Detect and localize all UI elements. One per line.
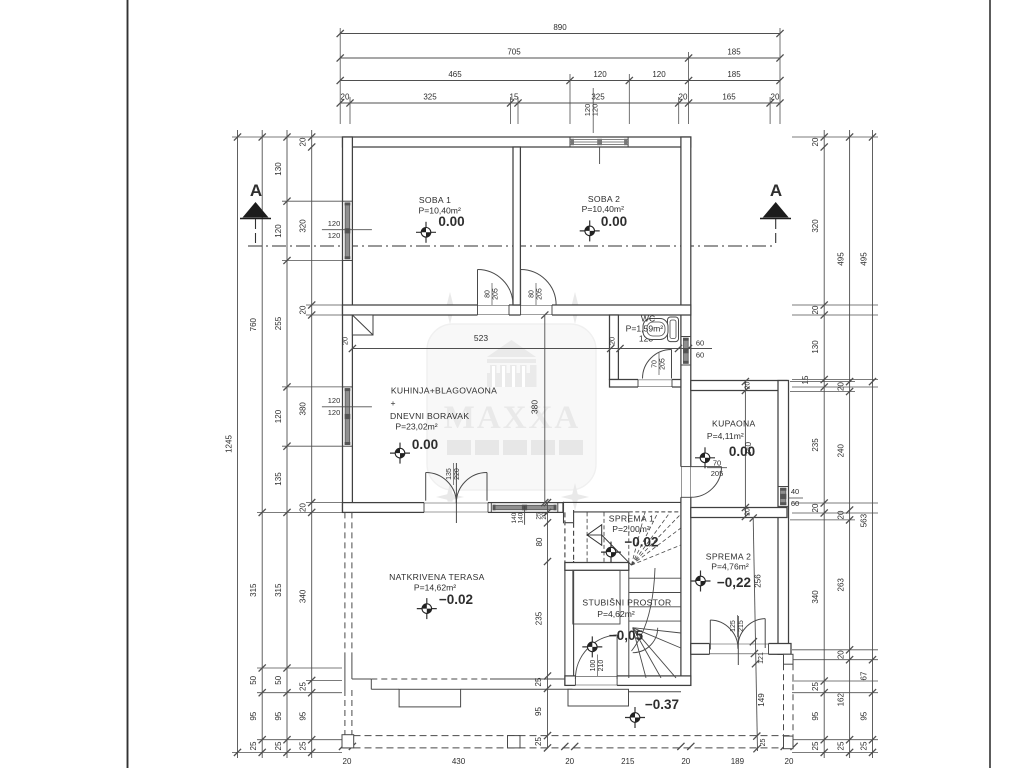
svg-text:0.00: 0.00	[729, 444, 755, 459]
svg-text:80: 80	[535, 537, 544, 546]
svg-text:465: 465	[448, 70, 462, 79]
svg-text:430: 430	[452, 757, 466, 766]
svg-text:140: 140	[518, 512, 525, 523]
door soba2 80/205	[521, 270, 557, 306]
elevation marker kupaona	[695, 447, 715, 468]
elevation marker kuhinja	[390, 443, 410, 464]
svg-text:120: 120	[328, 219, 341, 228]
elevation marker sprema2	[691, 571, 711, 592]
svg-text:SOBA 1: SOBA 1	[419, 195, 451, 205]
door kupaona 70/205	[691, 467, 722, 498]
left extension lines	[232, 137, 342, 752]
svg-text:185: 185	[727, 48, 741, 57]
svg-text:60: 60	[696, 339, 704, 348]
entrance step terrace	[399, 689, 461, 707]
svg-text:20: 20	[341, 337, 350, 345]
svg-text:120: 120	[328, 408, 341, 417]
window soba2 top 120/120	[570, 137, 628, 146]
dimension 380 kitchen height	[530, 311, 549, 506]
svg-text:60: 60	[791, 499, 799, 508]
svg-text:340: 340	[299, 589, 308, 603]
svg-text:20: 20	[679, 93, 688, 102]
svg-text:315: 315	[274, 583, 283, 597]
svg-text:25: 25	[811, 741, 820, 750]
svg-text:189: 189	[731, 757, 745, 766]
svg-text:215: 215	[621, 757, 635, 766]
svg-text:495: 495	[837, 252, 846, 266]
svg-text:0.00: 0.00	[601, 214, 627, 229]
svg-text:P=10,40m²: P=10,40m²	[582, 204, 624, 214]
section marker A left	[240, 181, 271, 219]
svg-text:185: 185	[727, 70, 741, 79]
page border right	[989, 0, 991, 768]
svg-text:P=4,76m²: P=4,76m²	[711, 562, 749, 572]
svg-text:256: 256	[754, 574, 763, 588]
svg-text:P=23,02m²: P=23,02m²	[395, 422, 437, 432]
top dimension chain row 890	[337, 23, 784, 37]
wall stair block left (dashed above, solid below)	[565, 510, 574, 685]
svg-text:20: 20	[811, 305, 820, 314]
svg-text:205: 205	[537, 288, 544, 300]
elevation marker soba2	[580, 220, 600, 241]
wall kupaona bottom	[691, 508, 787, 518]
label 120/120 window soba2 top	[583, 88, 600, 133]
svg-text:210: 210	[598, 660, 605, 672]
svg-text:240: 240	[837, 443, 846, 457]
room sprema1 labels	[609, 514, 659, 550]
right dimension chain 495/563/67/95/25	[860, 130, 877, 758]
svg-text:20: 20	[837, 510, 846, 519]
window soba1 left 120/120	[343, 201, 352, 260]
svg-text:−0.37: −0.37	[645, 697, 679, 712]
dimension terrace side 25/20/80/235/25/95/25	[534, 499, 551, 752]
svg-text:95: 95	[274, 711, 283, 720]
window kupaona right 40/60	[778, 487, 788, 507]
svg-text:95: 95	[299, 711, 308, 720]
window kitchen bottom 140/140	[491, 503, 558, 525]
svg-text:0.00: 0.00	[412, 437, 438, 452]
svg-text:220: 220	[454, 468, 461, 480]
elevation marker soba1	[416, 222, 436, 243]
window wc right 60/60	[681, 337, 690, 366]
svg-text:760: 760	[249, 317, 258, 331]
svg-text:120: 120	[590, 104, 599, 117]
svg-text:890: 890	[553, 23, 567, 32]
stairs direction arrow	[587, 525, 631, 565]
stair core landing box	[573, 570, 620, 624]
svg-text:−0,22: −0,22	[717, 575, 751, 590]
window kitchen left 120/120	[343, 387, 352, 446]
svg-text:135: 135	[274, 472, 283, 486]
wall wc bottom	[610, 379, 681, 389]
top dimension chain row 20/325/15/325/20/165/20	[337, 93, 784, 107]
room kuhinja labels	[390, 386, 497, 453]
svg-text:−0.02: −0.02	[439, 592, 473, 607]
svg-text:20: 20	[811, 137, 820, 146]
section marker A right	[760, 181, 791, 219]
svg-text:20: 20	[811, 503, 820, 512]
left dimension chain total 1245	[225, 130, 242, 758]
svg-text:100: 100	[590, 660, 597, 672]
svg-text:80: 80	[528, 290, 535, 298]
elevation marker sprema1	[601, 542, 621, 563]
door sprema2 double 125/215	[710, 616, 765, 665]
svg-text:380: 380	[299, 402, 308, 416]
wall stubisni bottom	[565, 675, 691, 687]
svg-text:20: 20	[541, 512, 548, 520]
svg-text:SOBA 2: SOBA 2	[588, 194, 620, 204]
svg-text:320: 320	[299, 219, 308, 233]
wall wc left	[610, 315, 619, 380]
svg-text:A: A	[250, 181, 262, 200]
svg-text:95: 95	[860, 711, 869, 720]
room natkrivena terasa labels	[389, 572, 485, 607]
svg-text:25: 25	[299, 741, 308, 750]
svg-text:25: 25	[837, 741, 846, 750]
svg-text:95: 95	[811, 711, 820, 720]
stairs upper flight dashed	[587, 512, 681, 565]
wall left exterior	[343, 137, 353, 512]
wall sprema2 bottom	[691, 643, 791, 656]
svg-text:SPREMA 1: SPREMA 1	[609, 514, 654, 524]
wall kitchen bottom	[343, 502, 681, 524]
dimension wc 20/123 + 60/60	[608, 334, 713, 360]
top dimension chain row 465/120/120/185	[337, 70, 784, 84]
svg-text:STUBIŠNI PROSTOR: STUBIŠNI PROSTOR	[582, 598, 671, 608]
elevation -0.37 outside	[645, 697, 679, 712]
label 120/120 window kitchen	[322, 396, 372, 417]
svg-text:149: 149	[757, 693, 766, 707]
svg-text:20: 20	[299, 137, 308, 146]
left dimension chain 760/315/50/95/25	[249, 130, 266, 758]
svg-text:20: 20	[837, 382, 846, 391]
svg-text:205: 205	[493, 288, 500, 300]
svg-text:315: 315	[249, 583, 258, 597]
svg-text:−0.02: −0.02	[624, 535, 658, 550]
svg-text:25: 25	[274, 741, 283, 750]
svg-text:20: 20	[837, 650, 846, 659]
svg-text:67: 67	[860, 671, 869, 680]
dimension right slant 256/121/149/25	[750, 514, 767, 752]
svg-text:40: 40	[791, 487, 799, 496]
svg-text:135: 135	[446, 468, 453, 480]
svg-text:25: 25	[249, 741, 258, 750]
wall partition soba1 soba2	[513, 147, 520, 305]
svg-text:495: 495	[860, 252, 869, 266]
svg-text:20: 20	[771, 93, 780, 102]
dimension 240 kupaona	[742, 378, 753, 520]
wc toilet	[643, 317, 679, 342]
wall annex right	[778, 381, 789, 655]
entrance step stubisni	[568, 689, 629, 706]
wall kupaona top	[691, 381, 787, 391]
door wc 70/205	[643, 350, 672, 379]
dimension 140/140 kitchen window	[511, 512, 525, 523]
svg-text:205: 205	[711, 469, 724, 478]
svg-text:130: 130	[274, 162, 283, 176]
wall between sobas and kitchen	[343, 304, 691, 316]
svg-text:205: 205	[660, 358, 667, 370]
svg-text:120: 120	[328, 231, 341, 240]
terrace left dashed edge	[345, 512, 352, 734]
svg-text:165: 165	[722, 93, 736, 102]
svg-text:380: 380	[530, 400, 540, 414]
svg-text:P=4,11m²: P=4,11m²	[707, 431, 744, 441]
svg-text:+: +	[390, 398, 395, 408]
label 40/60 window kupaona	[788, 487, 803, 508]
svg-text:SPREMA 2: SPREMA 2	[706, 552, 751, 562]
right dimension chain 495/20/240/20/263/20/162/25	[837, 130, 854, 758]
svg-text:95: 95	[534, 707, 543, 716]
door soba1 80/205	[478, 270, 514, 306]
left dimension chain 130/120/255/120/135/315/50/95/25	[274, 130, 291, 758]
svg-text:120: 120	[274, 409, 283, 423]
svg-text:20: 20	[299, 503, 308, 512]
watermark stars	[434, 292, 591, 511]
svg-text:20: 20	[681, 757, 690, 766]
bottom dimension chain 20/430/20/215/20/189/20	[339, 743, 798, 766]
door french kitchen 135/220	[426, 463, 487, 523]
svg-text:20: 20	[608, 337, 617, 345]
svg-text:563: 563	[860, 513, 869, 527]
svg-text:WC: WC	[641, 314, 655, 324]
svg-text:50: 50	[249, 675, 258, 684]
svg-text:A: A	[770, 181, 782, 200]
svg-text:235: 235	[811, 438, 820, 452]
svg-text:50: 50	[274, 675, 283, 684]
svg-text:235: 235	[535, 611, 544, 625]
svg-text:70: 70	[713, 459, 721, 468]
svg-text:P=14,62m²: P=14,62m²	[414, 583, 456, 593]
svg-text:20: 20	[785, 757, 794, 766]
stairs winder fan	[632, 568, 681, 678]
elevation marker -0.37	[625, 707, 645, 728]
door stubisni 100/210	[575, 635, 617, 679]
svg-text:70: 70	[651, 360, 658, 368]
svg-text:95: 95	[249, 711, 258, 720]
svg-text:325: 325	[423, 93, 437, 102]
svg-text:DNEVNI BORAVAK: DNEVNI BORAVAK	[390, 411, 469, 421]
svg-text:KUPAONA: KUPAONA	[712, 419, 756, 429]
page border left	[127, 0, 129, 768]
wall right exterior	[680, 137, 692, 685]
svg-text:20: 20	[745, 382, 752, 390]
right path dashed	[784, 654, 794, 736]
svg-text:162: 162	[837, 692, 846, 706]
svg-text:130: 130	[811, 340, 820, 354]
elevation marker terasa	[417, 598, 437, 619]
terrace bottom edge	[352, 679, 681, 692]
room wc labels	[626, 314, 664, 334]
svg-text:20: 20	[299, 305, 308, 314]
svg-text:215: 215	[738, 620, 745, 632]
svg-text:263: 263	[837, 578, 846, 592]
section line A-A	[248, 219, 776, 246]
svg-text:25: 25	[760, 739, 767, 747]
room kupaona labels	[707, 419, 756, 460]
svg-text:120: 120	[593, 70, 607, 79]
svg-text:P=2,00m²: P=2,00m²	[612, 524, 650, 534]
svg-text:255: 255	[274, 316, 283, 330]
svg-text:20: 20	[341, 93, 350, 102]
svg-text:121: 121	[758, 652, 765, 664]
svg-text:P=4,62m²: P=4,62m²	[597, 609, 635, 619]
label 120/120 window soba1	[322, 219, 372, 240]
room soba1 labels	[419, 195, 465, 229]
svg-text:705: 705	[507, 48, 521, 57]
top dimension chain row 705/185	[337, 48, 784, 62]
svg-text:320: 320	[811, 219, 820, 233]
bottom dashed path	[342, 735, 793, 749]
svg-text:25: 25	[534, 677, 543, 686]
svg-text:25: 25	[860, 741, 869, 750]
room sprema2 labels	[706, 552, 751, 591]
svg-text:25: 25	[534, 737, 543, 746]
svg-text:20: 20	[745, 508, 752, 516]
right dimension chain 20/320/20/130/15/235/20/340/25/95/25	[801, 130, 828, 758]
svg-text:−0,05: −0,05	[609, 628, 644, 643]
svg-text:523: 523	[474, 333, 488, 343]
right extension lines	[790, 137, 878, 752]
svg-text:1245: 1245	[225, 435, 234, 453]
svg-text:25: 25	[299, 682, 308, 691]
svg-text:20: 20	[343, 757, 352, 766]
wall top exterior	[343, 137, 691, 147]
svg-text:340: 340	[811, 590, 820, 604]
svg-text:120: 120	[328, 396, 341, 405]
elevation marker stubisni	[582, 636, 602, 657]
watermark badge	[427, 324, 596, 490]
svg-text:120: 120	[274, 224, 283, 238]
svg-text:P=1,59m²: P=1,59m²	[626, 324, 664, 334]
svg-text:20: 20	[565, 757, 574, 766]
wall sprema1 bottom	[565, 563, 629, 571]
svg-text:125: 125	[730, 620, 737, 632]
dimension 523 kitchen width	[341, 333, 615, 352]
room stubisni prostor labels	[582, 598, 671, 644]
svg-text:0.00: 0.00	[438, 214, 464, 229]
svg-text:NATKRIVENA TERASA: NATKRIVENA TERASA	[389, 572, 485, 582]
svg-text:120: 120	[652, 70, 666, 79]
svg-text:80: 80	[484, 290, 491, 298]
svg-text:60: 60	[696, 351, 704, 360]
svg-text:KUHINJA+BLAGOVAONA: KUHINJA+BLAGOVAONA	[391, 386, 497, 396]
top extension lines	[340, 28, 780, 124]
chimney flue box	[352, 315, 373, 335]
room soba2 labels	[582, 194, 627, 229]
svg-text:25: 25	[811, 682, 820, 691]
left dimension chain 20/320/20/380/20/340/25/95/25	[299, 130, 316, 758]
stairs treads	[629, 562, 681, 678]
